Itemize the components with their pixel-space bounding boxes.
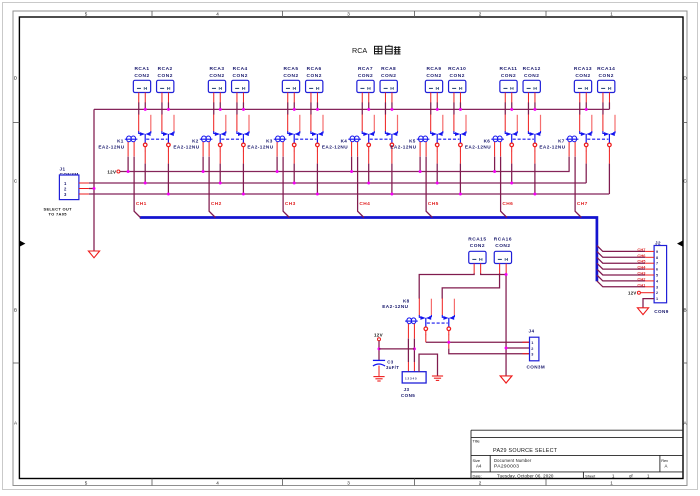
svg-text:8: 8: [656, 256, 658, 260]
svg-text:Document Number: Document Number: [494, 458, 532, 463]
junction: [367, 108, 370, 111]
svg-text:Tuesday, October 06, 2020: Tuesday, October 06, 2020: [497, 473, 554, 478]
svg-text:2: 2: [531, 347, 533, 351]
wire K8 pole B to J4 pin3: [448, 335, 450, 349]
junction: [144, 182, 147, 185]
svg-text:J4: J4: [529, 328, 535, 333]
svg-text:CON9: CON9: [654, 309, 668, 314]
junction: [202, 170, 205, 173]
svg-text:K3: K3: [266, 139, 273, 144]
connector RCA8 CON2: [380, 66, 397, 102]
connector RCA1 CON2: [133, 66, 150, 102]
connector RCA16 CON2: [494, 237, 512, 274]
wire RCA8 gnd to rail: [391, 102, 393, 109]
wire J1 pin2 to ground: [89, 188, 94, 190]
svg-text:RCA8: RCA8: [381, 66, 396, 72]
wire CH4 to J2 pin 6: [597, 263, 645, 269]
svg-text:CON2: CON2: [495, 243, 510, 249]
junction: [505, 273, 508, 276]
centre markers: [19, 240, 25, 246]
relay K1 contact B: [162, 114, 174, 151]
wire pole A to rail A: [219, 151, 221, 164]
junction 12V: [378, 347, 381, 350]
svg-text:J3: J3: [404, 387, 410, 392]
svg-text:Title: Title: [473, 439, 480, 444]
svg-text:Size: Size: [473, 458, 481, 463]
wire pole A to rail A: [144, 151, 146, 164]
junction: [367, 182, 370, 185]
wire RCA10 gnd to rail: [459, 102, 461, 109]
wire RCA1 gnd to rail: [144, 102, 146, 109]
svg-text:RCA9: RCA9: [426, 66, 441, 72]
wire RCA3 signal: [213, 102, 215, 114]
wire CH5 to bus: [426, 157, 432, 218]
rail B (J1 pin3 bus): [89, 193, 609, 195]
svg-text:CON2: CON2: [358, 73, 373, 79]
wire RCA6 signal: [310, 102, 312, 114]
connector J4 CON3M: [527, 328, 546, 369]
svg-text:3: 3: [656, 285, 658, 289]
svg-text:CH6: CH6: [637, 253, 646, 258]
wire RCA8 signal: [384, 102, 386, 114]
svg-text:CH3: CH3: [285, 201, 296, 207]
wire RCA3 gnd to rail: [219, 102, 221, 109]
svg-text:Rev: Rev: [661, 458, 668, 463]
wire coil to 12V: [202, 157, 204, 172]
channel bus: [140, 218, 597, 282]
svg-text:3: 3: [347, 12, 350, 17]
svg-text:1: 1: [531, 341, 533, 345]
junction J1 pin2: [93, 187, 96, 190]
svg-text:4: 4: [216, 12, 219, 17]
svg-text:RCA13: RCA13: [574, 66, 592, 72]
junction: [459, 108, 462, 111]
relay K8 coil EA2-12NU: [382, 299, 417, 339]
connector RCA9 CON2: [425, 66, 442, 102]
svg-text:RCA11: RCA11: [500, 66, 518, 72]
svg-text:RCA15: RCA15: [468, 237, 486, 243]
relay K7 contact A: [580, 114, 592, 151]
wire coil to 12V: [568, 157, 570, 172]
svg-text:CON2: CON2: [450, 73, 465, 79]
relay K5 coil EA2-12NU: [390, 136, 429, 156]
junction: [459, 193, 462, 196]
svg-text:RCA: RCA: [352, 46, 367, 55]
svg-text:CH1: CH1: [136, 201, 147, 207]
svg-text:6: 6: [656, 268, 658, 272]
12V rail: [120, 171, 570, 173]
wire CH3 to J2 pin 5: [597, 269, 645, 275]
junction: [242, 193, 245, 196]
svg-text:9: 9: [656, 250, 658, 254]
wire RCA7 gnd to rail: [368, 102, 370, 109]
wire K8 coil pin2 to J3: [413, 339, 415, 363]
wire RCA11 signal: [504, 102, 506, 114]
junction: [493, 170, 496, 173]
wire RCA5 signal: [287, 102, 289, 114]
junction: [316, 193, 319, 196]
ground symbol J3: [432, 376, 443, 380]
mechanical linkage: [438, 138, 459, 140]
wire coil to 12V: [276, 157, 278, 172]
junction: [350, 170, 353, 173]
wire pole B to rail B: [608, 151, 610, 164]
svg-text:CON2: CON2: [307, 73, 322, 79]
svg-text:RCA7: RCA7: [358, 66, 373, 72]
svg-text:K8: K8: [403, 299, 410, 304]
relay K6 coil EA2-12NU: [465, 136, 504, 156]
ground symbol J2: [637, 308, 648, 315]
wire CH7 to bus: [575, 157, 581, 218]
svg-text:5: 5: [85, 12, 88, 17]
svg-text:EA2-12NU: EA2-12NU: [390, 144, 416, 149]
junction: [242, 108, 245, 111]
junction: [436, 108, 439, 111]
svg-text:J1: J1: [60, 167, 66, 172]
wire RCA6 gnd to rail: [316, 102, 318, 109]
svg-text:CON2: CON2: [134, 73, 149, 79]
svg-text:A4: A4: [476, 463, 482, 468]
svg-text:1 2 3 4 5: 1 2 3 4 5: [405, 376, 417, 380]
svg-text:CH6: CH6: [502, 201, 513, 207]
junction: [167, 193, 170, 196]
svg-text:CH4: CH4: [359, 201, 370, 207]
svg-text:2: 2: [479, 12, 482, 17]
connector RCA6 CON2: [306, 66, 323, 102]
connector RCA7 CON2: [357, 66, 374, 102]
svg-text:CH7: CH7: [637, 247, 645, 252]
wire K8 pole A to J4 pin1: [425, 335, 427, 343]
capacitor C3: [373, 359, 399, 369]
svg-text:CH1: CH1: [637, 282, 646, 287]
wire CH5 to J2 pin 7: [597, 257, 645, 263]
mechanical linkage: [146, 138, 167, 140]
svg-text:12V: 12V: [107, 169, 116, 174]
svg-text:CH2: CH2: [637, 276, 646, 281]
wire CH4 to bus: [358, 157, 364, 218]
wire RCA2 signal: [161, 102, 163, 114]
junction: [390, 108, 393, 111]
wire CH7 to J2 pin 9: [597, 246, 645, 252]
wire RCA7 signal: [361, 102, 363, 114]
relay K3 contact B: [311, 114, 323, 151]
svg-text:CH2: CH2: [211, 201, 222, 207]
wire pole B to rail B: [459, 151, 461, 164]
connector RCA5 CON2: [282, 66, 299, 102]
junction: [316, 108, 319, 111]
svg-text:EA2-12NU: EA2-12NU: [322, 144, 348, 149]
junction: [533, 108, 536, 111]
svg-text:CON2: CON2: [381, 73, 396, 79]
wire RCA4 signal: [236, 102, 238, 114]
mechanical linkage: [587, 138, 608, 140]
svg-text:1: 1: [610, 480, 613, 485]
connector RCA12 CON2: [523, 66, 541, 102]
svg-text:RCA3: RCA3: [209, 66, 224, 72]
svg-text:Date:: Date:: [473, 473, 482, 478]
wire coil to 12V: [127, 157, 129, 172]
relay K8 contact A: [419, 298, 431, 335]
svg-text:CON2: CON2: [599, 73, 614, 79]
wire gnd to J4 pin2: [506, 347, 529, 349]
12V circle J2: [637, 291, 640, 294]
wire C3 to ground: [378, 366, 380, 377]
connector RCA3 CON2: [208, 66, 225, 102]
wire RCA4 gnd to rail: [242, 102, 244, 109]
svg-text:A: A: [665, 463, 668, 468]
svg-text:TO 7A05: TO 7A05: [49, 211, 68, 216]
relay K3 coil EA2-12NU: [247, 136, 286, 156]
junction: [127, 170, 130, 173]
ground rail net: [94, 108, 609, 110]
relay K5 contact B: [454, 114, 466, 151]
svg-text:CON2: CON2: [524, 73, 539, 79]
wire CH3 to bus: [283, 157, 289, 218]
svg-text:2: 2: [656, 291, 658, 295]
svg-text:K5: K5: [409, 139, 416, 144]
junction: [167, 108, 170, 111]
wire RCA5 gnd to rail: [293, 102, 295, 109]
svg-text:RCA6: RCA6: [307, 66, 322, 72]
wire pole B to rail B: [391, 151, 393, 164]
ground symbol left: [88, 251, 99, 258]
relay K2 contact A: [214, 114, 226, 151]
wire RCA15 gnd: [481, 273, 506, 274]
title block: [471, 430, 683, 478]
wire RCA10 signal: [453, 102, 455, 114]
junction: [510, 108, 513, 111]
connector RCA14 CON2: [597, 66, 615, 102]
ground symbol C3: [373, 377, 384, 381]
svg-text:CH5: CH5: [637, 259, 646, 264]
svg-text:CH5: CH5: [428, 201, 439, 207]
relay K8 contact B: [442, 298, 454, 335]
wire RCA11 gnd to rail: [511, 102, 513, 109]
relay K4 contact B: [385, 114, 397, 151]
wire RCA13 gnd to rail: [585, 102, 587, 109]
wire RCA16 gnd to ground: [505, 273, 507, 376]
wire CH2 to J2 pin 4: [597, 275, 645, 281]
relay K2 contact B: [237, 114, 249, 151]
svg-text:EA2-12NU: EA2-12NU: [465, 144, 491, 149]
wire pole A to rail A: [585, 151, 587, 164]
relay K5 contact A: [431, 114, 443, 151]
svg-text:1: 1: [610, 12, 613, 17]
relay K2 coil EA2-12NU: [173, 136, 212, 156]
ground symbol big: [500, 376, 512, 383]
svg-text:CON2: CON2: [426, 73, 441, 79]
wire 12V to coil: [379, 348, 414, 350]
svg-text:CH4: CH4: [637, 265, 646, 270]
junction: [585, 108, 588, 111]
wire RCA15 signal: [419, 273, 474, 298]
junction: [293, 182, 296, 185]
junction: [276, 170, 279, 173]
svg-text:3: 3: [531, 353, 533, 357]
svg-text:3uF/T: 3uF/T: [386, 365, 399, 370]
wire J2 pin1 to ground: [643, 299, 654, 308]
wire K8 coil pin1 to J3: [407, 339, 409, 363]
mechanical linkage K8: [427, 322, 448, 324]
svg-text:B: B: [14, 308, 17, 313]
junction: [144, 108, 147, 111]
mechanical linkage: [513, 138, 534, 140]
wire pole B to rail B: [534, 151, 536, 164]
svg-text:CON2: CON2: [209, 73, 224, 79]
svg-text:CON3M: CON3M: [527, 365, 546, 370]
svg-text:1: 1: [656, 297, 658, 301]
wire RCA2 gnd to rail: [167, 102, 169, 109]
wire coil to 12V: [494, 157, 496, 172]
mechanical linkage: [221, 138, 242, 140]
svg-text:B: B: [683, 308, 686, 313]
junction: [510, 182, 513, 185]
svg-text:CON2: CON2: [158, 73, 173, 79]
svg-text:C3: C3: [387, 359, 393, 364]
svg-text:K2: K2: [192, 139, 199, 144]
wire RCA12 signal: [527, 102, 529, 114]
connector RCA2 CON2: [157, 66, 174, 102]
wire CH6 to J2 pin 8: [597, 251, 645, 257]
junction: [219, 108, 222, 111]
wire pole A to rail A: [511, 151, 513, 164]
relay K4 contact A: [362, 114, 374, 151]
svg-text:RCA1: RCA1: [134, 66, 149, 72]
mechanical linkage: [295, 138, 316, 140]
svg-text:CON2: CON2: [233, 73, 248, 79]
svg-text:2: 2: [479, 480, 482, 485]
svg-text:PA290003: PA290003: [494, 463, 519, 469]
junction: [219, 182, 222, 185]
wire RCA9 signal: [430, 102, 432, 114]
svg-text:12V: 12V: [628, 290, 637, 295]
rail A (J1 pin1 bus): [89, 182, 586, 184]
relay K6 contact B: [528, 114, 540, 151]
svg-text:RCA2: RCA2: [158, 66, 173, 72]
junction: [533, 193, 536, 196]
svg-text:K6: K6: [484, 139, 491, 144]
svg-text:EA2-12NU: EA2-12NU: [382, 304, 408, 309]
wire RCA14 signal: [602, 102, 604, 114]
relay K3 contact A: [288, 114, 300, 151]
svg-text:CON2: CON2: [501, 73, 516, 79]
wire pole B to rail B: [167, 151, 169, 164]
svg-text:RCA5: RCA5: [283, 66, 298, 72]
junction poles: [447, 341, 450, 344]
wire 12V to J2 pin2: [640, 292, 654, 294]
svg-text:5: 5: [656, 274, 658, 278]
relay K7 coil EA2-12NU: [539, 136, 578, 156]
svg-text:J2: J2: [655, 240, 661, 245]
wire pole A to rail A: [368, 151, 370, 164]
svg-text:RCA12: RCA12: [523, 66, 541, 72]
svg-text:RCA16: RCA16: [494, 237, 512, 243]
connector RCA11 CON2: [500, 66, 518, 102]
connector RCA4 CON2: [232, 66, 249, 102]
relay K7 contact B: [603, 114, 615, 151]
12V circle bottom: [378, 338, 381, 341]
svg-text:RCA10: RCA10: [448, 66, 466, 72]
connector J1 CON3M: [59, 167, 89, 200]
svg-text:CON2: CON2: [283, 73, 298, 79]
junction gnd/J4: [505, 347, 508, 350]
wire CH2 to bus: [209, 157, 215, 218]
svg-text:EA2-12NU: EA2-12NU: [98, 144, 124, 149]
connector J3 CON5: [401, 372, 426, 398]
svg-text:K4: K4: [341, 139, 348, 144]
svg-text:CH7: CH7: [577, 201, 588, 207]
junction: [436, 182, 439, 185]
junction coil/12V: [413, 347, 416, 350]
svg-text:7: 7: [656, 262, 658, 266]
wire RCA1 signal: [138, 102, 140, 114]
12V source circle: [117, 170, 120, 173]
connector J2 CON9: [654, 240, 669, 314]
svg-text:4: 4: [216, 480, 219, 485]
connector RCA10 CON2: [448, 66, 466, 102]
wire coil to 12V: [419, 157, 421, 172]
svg-text:K7: K7: [558, 139, 565, 144]
junction: [419, 170, 422, 173]
wire pole B to rail B: [242, 151, 244, 164]
svg-text:EA2-12NU: EA2-12NU: [173, 144, 199, 149]
svg-text:K1: K1: [117, 139, 124, 144]
svg-text:3: 3: [347, 480, 350, 485]
svg-text:Sheet: Sheet: [585, 473, 596, 478]
svg-text:EA2-12NU: EA2-12NU: [539, 144, 565, 149]
relay K4 coil EA2-12NU: [322, 136, 361, 156]
wire pole A to rail A: [293, 151, 295, 164]
svg-text:5: 5: [85, 480, 88, 485]
svg-text:EA2-12NU: EA2-12NU: [247, 144, 273, 149]
wire RCA9 gnd to rail: [436, 102, 438, 109]
svg-text:RCA14: RCA14: [597, 66, 615, 72]
wire RCA13 signal: [579, 102, 581, 114]
wire pole B to rail B: [316, 151, 318, 164]
svg-text:CON5: CON5: [401, 393, 415, 398]
relay K1 coil EA2-12NU: [98, 136, 137, 156]
junction: [390, 193, 393, 196]
connector RCA15 CON2: [468, 237, 486, 274]
wire J3 pin to right ground: [419, 354, 438, 376]
wire CH1 to bus: [134, 157, 140, 218]
svg-text:12V: 12V: [374, 333, 383, 338]
svg-text:CH3: CH3: [637, 271, 646, 276]
relay K1 contact A: [139, 114, 151, 151]
wire 12V down: [378, 341, 380, 360]
wire RCA14 gnd to rail: [608, 102, 610, 109]
svg-text:CON2: CON2: [575, 73, 590, 79]
connector RCA13 CON2: [574, 66, 592, 102]
svg-text:RCA4: RCA4: [233, 66, 248, 72]
mechanical linkage: [370, 138, 391, 140]
wire CH6 to bus: [501, 157, 507, 218]
svg-text:PA29 SOURCE SELECT: PA29 SOURCE SELECT: [493, 448, 558, 454]
wire RCA16 signal: [442, 273, 499, 298]
wire coil to 12V: [351, 157, 353, 172]
wire pole A to rail A: [436, 151, 438, 164]
wire CH1 to J2 pin 3: [597, 281, 645, 287]
junction: [293, 108, 296, 111]
wire RCA12 gnd to rail: [534, 102, 536, 109]
ground rail left drop wire: [93, 109, 95, 251]
relay K6 contact A: [505, 114, 517, 151]
svg-text:CON2: CON2: [470, 243, 485, 249]
